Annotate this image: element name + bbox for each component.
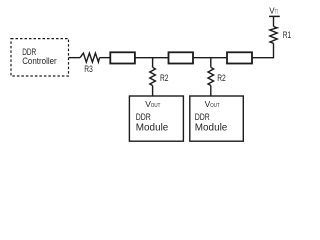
wire: Z2 to Z3 through node B xyxy=(193,57,227,59)
svg-text:R2: R2 xyxy=(217,73,226,83)
wire: Z3 to R1 corner xyxy=(252,43,274,57)
DDR Module 2 (box) xyxy=(190,96,244,141)
svg-text:OUT: OUT xyxy=(210,103,220,109)
DDR Module 1 text xyxy=(136,112,169,133)
DDR Module 2 text xyxy=(195,112,228,133)
wire: second R2 to DDR Module 2 xyxy=(210,86,212,97)
svg-text:R1: R1 xyxy=(283,30,292,40)
series element Z3 (box) xyxy=(227,52,252,63)
svg-text:OUT: OUT xyxy=(151,103,161,109)
svg-text:TT: TT xyxy=(275,9,278,15)
svg-text:DDR: DDR xyxy=(136,112,151,122)
VTT terminal bar xyxy=(269,15,280,17)
net label VTT xyxy=(269,6,278,15)
svg-text:R2: R2 xyxy=(160,73,169,83)
resistor R3 xyxy=(80,53,100,74)
node B junction / wire down to second R2 xyxy=(210,58,212,68)
wire: R1 to VTT terminal xyxy=(273,16,275,26)
svg-text:Module: Module xyxy=(195,122,228,133)
resistor R2 (second) xyxy=(208,67,226,85)
DDR Controller (dashed box) xyxy=(11,39,69,76)
svg-text:R3: R3 xyxy=(84,64,93,74)
wire: first R2 to DDR Module 1 xyxy=(152,86,154,97)
svg-text:Controller: Controller xyxy=(22,56,57,66)
wire: controller output to R3 xyxy=(69,57,81,59)
wire: Z1 to Z2 through node A xyxy=(135,57,169,59)
pin label VOUT (module 2) xyxy=(205,99,221,109)
DDR Module 1 (box) xyxy=(129,96,183,141)
resistor R2 (first) xyxy=(150,67,169,85)
node A junction / wire down to first R2 xyxy=(152,58,154,68)
svg-text:DDR: DDR xyxy=(195,112,210,122)
svg-text:Module: Module xyxy=(136,122,169,133)
resistor R1 xyxy=(270,27,291,44)
wire: R3 to series element Z1 xyxy=(100,57,111,59)
series element Z2 (box) xyxy=(169,52,194,63)
series element Z1 (box) xyxy=(110,52,135,63)
pin label VOUT (module 1) xyxy=(145,99,161,109)
